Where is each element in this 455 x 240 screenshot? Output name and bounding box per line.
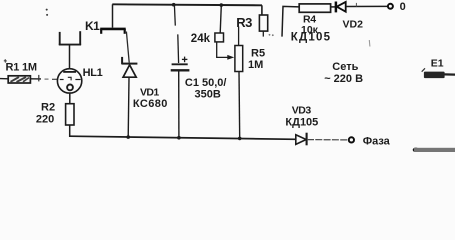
scan artifact bar bottom right [413,148,455,153]
svg-text:220: 220 [36,113,54,125]
wire R4 to VD2 [331,6,336,8]
svg-text:R2: R2 [41,102,55,114]
junction dot C1 bottom [177,136,181,140]
wire VD3 to terminal [307,139,349,141]
wire rail to R3 [261,5,263,15]
svg-text:R1 1M: R1 1M [6,62,37,74]
wire R5 top lead [238,26,240,45]
svg-text:24k: 24k [191,33,211,45]
wire dash to lamp [45,78,49,80]
electrode E1 [422,68,455,78]
svg-text:1M: 1M [248,59,263,71]
junction dot R5 bottom [238,137,242,141]
wire rail to 24k [220,5,221,33]
wire HL1 to R2 [69,93,71,104]
svg-text:КД105: КД105 [291,31,331,43]
stray dots under R3 [269,34,274,36]
terminal 0 [388,4,393,9]
junction dot VD1 bottom [126,135,130,139]
svg-text:КД105: КД105 [285,116,318,128]
resistor R3 [259,15,267,31]
svg-text:350В: 350В [195,89,221,101]
potentiometer R5 [235,46,243,72]
resistor R1 [8,76,30,83]
wire K1 stem [112,4,114,27]
resistor R4 [299,4,330,12]
svg-text:Фаза: Фаза [363,136,391,148]
wire R3 bottom stub [262,31,264,36]
wire top rail [112,4,262,5]
svg-text:K1: K1 [85,19,100,33]
stray mark colon [46,9,48,16]
svg-text:HL1: HL1 [83,67,103,79]
wiper arrow R5 [227,55,234,60]
wire R5 to bottom rail [238,72,241,139]
wire C1 to bottom rail [178,71,180,137]
zener diode VD1 [122,57,138,77]
svg-text:VD2: VD2 [343,18,364,30]
wire VD2 to terminal 0 [346,5,388,7]
wire R1 to HL1 [30,78,41,80]
junction dot C1 top [172,3,176,7]
wire 24k to R5 wiper [217,42,228,58]
resistor R2 [66,104,74,125]
svg-text:VD1: VD1 [140,87,159,99]
svg-text:Сеть: Сеть [332,61,358,73]
svg-text:0: 0 [400,1,406,13]
junction dot 24k top [220,3,224,7]
resistor 24k [215,33,224,42]
svg-text:R5: R5 [251,48,265,60]
wire VD1 to bottom rail [127,78,130,137]
svg-text:C1 50,0/: C1 50,0/ [185,77,227,89]
diode VD2 [336,2,346,13]
node corner to R4 [282,6,299,36]
wire rail to C1 [173,5,176,26]
svg-text:R3: R3 [236,15,252,30]
stray tick on wire [355,3,357,7]
svg-text:~ 220 В: ~ 220 В [324,73,363,85]
diode VD3 [296,133,307,146]
stray tick [368,40,371,47]
svg-text:КС680: КС680 [133,98,168,110]
relay contact K1 [100,29,126,34]
wire K1 to VD1 [126,32,129,63]
wire bracket to HL1 [69,45,71,69]
wire left edge to R1 [0,78,9,80]
touch plate bracket above HL1 [59,31,81,45]
svg-text:E1: E1 [431,58,444,70]
terminal Faza [349,137,354,142]
wire R2 to bottom rail [70,125,71,136]
stray tick on wire [38,75,40,82]
svg-text:VD3: VD3 [292,104,312,116]
stray tick above R1 [4,59,7,62]
capacitor C1 [171,57,190,71]
neon lamp HL1 [57,69,81,93]
wire bottom rail [70,136,296,139]
